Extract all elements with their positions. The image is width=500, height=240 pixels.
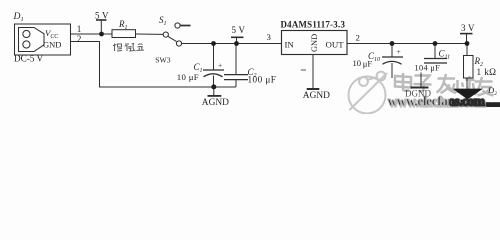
- svg-text:+: +: [218, 60, 222, 69]
- svg-text:104 μF: 104 μF: [415, 63, 441, 72]
- svg-text:10: 10: [353, 58, 362, 68]
- svg-text:DC-5 V: DC-5 V: [14, 53, 44, 63]
- svg-text:5 V: 5 V: [95, 10, 109, 20]
- svg-text:OUT: OUT: [326, 40, 345, 50]
- svg-text:10 μF: 10 μF: [177, 72, 199, 82]
- svg-text:3: 3: [267, 32, 272, 42]
- svg-text:S1: S1: [159, 15, 167, 27]
- svg-text:100 μF: 100 μF: [248, 75, 277, 85]
- svg-text:1: 1: [77, 24, 82, 34]
- svg-text:1 kΩ: 1 kΩ: [477, 67, 497, 77]
- svg-text:IN: IN: [285, 40, 295, 50]
- svg-text:AGND: AGND: [202, 98, 229, 108]
- svg-text:D4AMS1117-3.3: D4AMS1117-3.3: [281, 19, 346, 29]
- svg-text:μF: μF: [363, 59, 373, 69]
- svg-text:AGND: AGND: [303, 91, 330, 101]
- svg-text:2: 2: [77, 34, 82, 44]
- svg-text:+: +: [397, 47, 401, 56]
- svg-text:3 V: 3 V: [461, 23, 475, 33]
- svg-text:2: 2: [356, 33, 360, 43]
- svg-text:SW3: SW3: [155, 56, 171, 65]
- svg-text:GND: GND: [43, 40, 61, 50]
- svg-text:GND: GND: [310, 34, 319, 52]
- svg-text:5 V: 5 V: [232, 25, 246, 35]
- svg-text:VCC: VCC: [45, 28, 58, 40]
- svg-text:DGND: DGND: [405, 89, 431, 99]
- svg-text:D1: D1: [13, 11, 24, 23]
